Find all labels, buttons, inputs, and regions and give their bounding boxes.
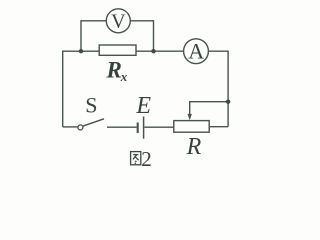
svg-text:R: R — [186, 134, 202, 160]
wire switch to battery — [107, 126, 137, 128]
svg-text:x: x — [120, 69, 128, 84]
wire voltmeter right horizontal — [130, 20, 154, 22]
rheostat R box — [174, 121, 209, 133]
wire voltmeter left vertical drop — [80, 20, 82, 51]
switch S pivot circle — [78, 125, 83, 130]
wire R box right to vertical — [209, 126, 228, 128]
battery E long plate — [143, 117, 145, 139]
node junction dot slider — [226, 100, 230, 104]
wire slider horizontal — [190, 101, 228, 103]
wire right vertical — [227, 51, 229, 127]
node junction dot right — [151, 49, 155, 53]
svg-text:2: 2 — [141, 147, 152, 171]
caption 图2 hanzi drawn — [131, 152, 141, 165]
resistor Rx box — [99, 45, 136, 55]
wire voltmeter left horizontal — [81, 20, 107, 22]
wire ammeter right horizontal — [208, 50, 228, 52]
svg-text:S: S — [85, 92, 97, 117]
wire main horizontal left segment — [63, 50, 99, 52]
voltmeter U-V circle — [106, 9, 130, 33]
node junction dot left — [79, 49, 83, 53]
battery E short plate — [137, 123, 139, 134]
wire main horizontal right segment — [136, 50, 184, 52]
ammeter U-A circle — [184, 39, 209, 64]
rheostat slider arrowhead — [188, 114, 192, 120]
wire slider vertical — [189, 101, 191, 115]
switch S lever — [83, 119, 104, 126]
svg-text:R: R — [106, 57, 122, 82]
svg-text:A: A — [188, 39, 204, 64]
wire voltmeter right vertical drop — [153, 20, 155, 51]
wire battery to R box — [145, 126, 174, 128]
wire bottom left horizontal — [63, 126, 78, 128]
svg-text:E: E — [135, 93, 151, 119]
wire left vertical — [62, 51, 64, 127]
svg-text:V: V — [111, 11, 126, 33]
